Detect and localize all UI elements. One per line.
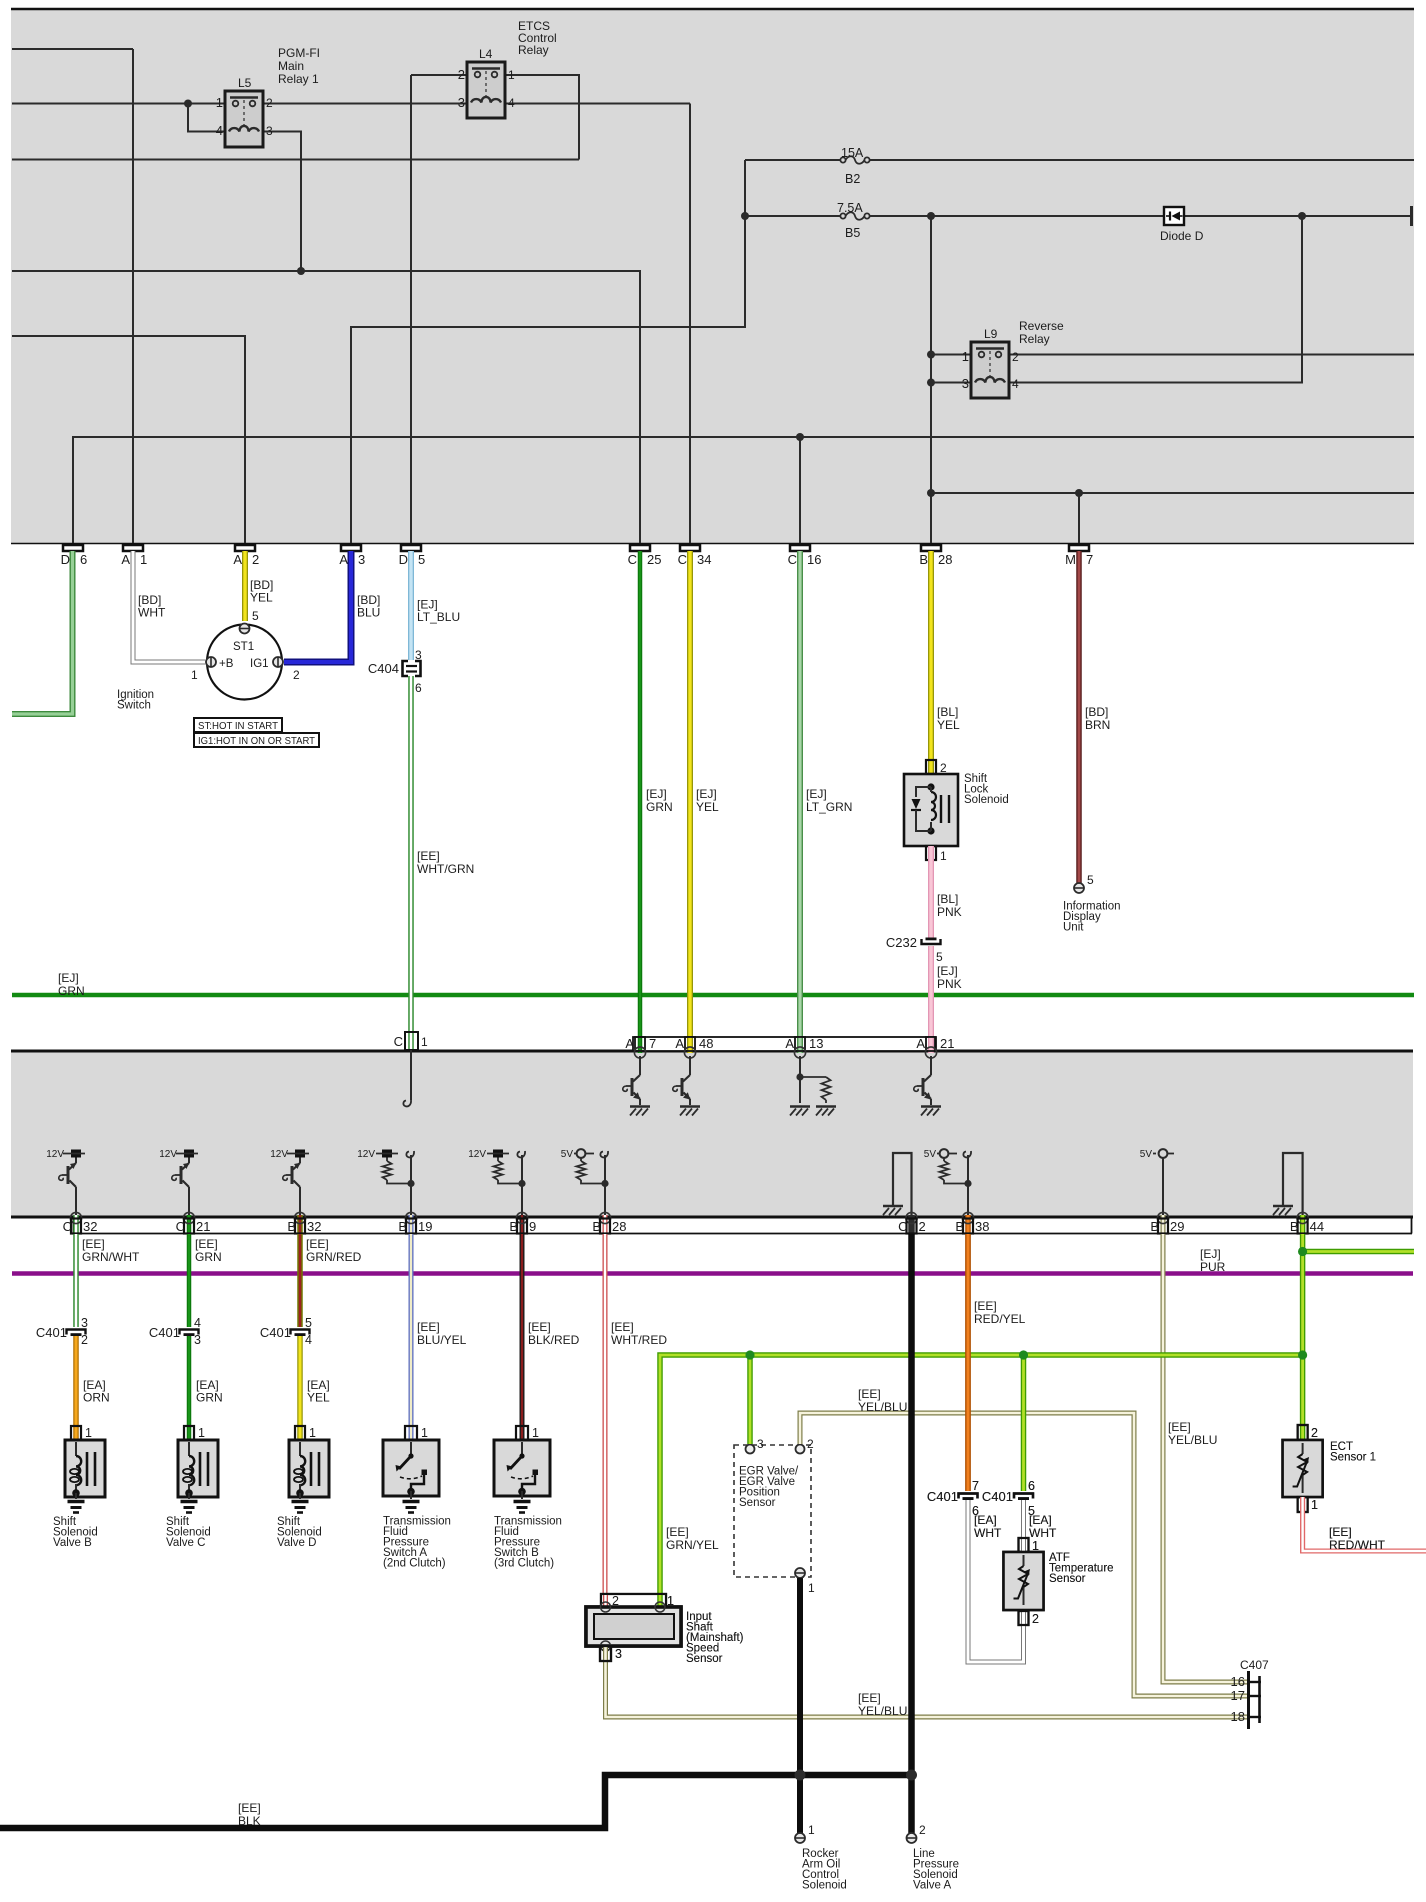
input shaft (mainshaft) speed sensor <box>601 1594 666 1607</box>
wire B38 [EE] RED/YEL <box>965 1234 971 1491</box>
wire [EJ] GRN bus line <box>12 993 1414 998</box>
svg-text:L4: L4 <box>479 47 493 61</box>
svg-text:1: 1 <box>532 1426 539 1440</box>
svg-text:3: 3 <box>458 95 465 110</box>
svg-text:32: 32 <box>307 1219 321 1234</box>
svg-text:7.5A: 7.5A <box>837 201 863 215</box>
connector B28 <box>921 545 941 551</box>
fuse B5 7.5A <box>840 212 869 220</box>
svg-text:21: 21 <box>196 1219 210 1234</box>
svg-text:2: 2 <box>1032 1612 1039 1626</box>
svg-text:12V: 12V <box>357 1149 375 1160</box>
svg-text:9: 9 <box>529 1219 536 1234</box>
svg-text:5V: 5V <box>561 1149 574 1160</box>
wire: L4 pin2 feed from D5 column <box>411 74 471 76</box>
wire: L5 pin3 to H4 <box>259 132 301 272</box>
pulldown at A13 <box>799 1056 801 1103</box>
shift lock solenoid <box>926 760 936 774</box>
svg-text:Valve B: Valve B <box>53 1537 92 1549</box>
svg-text:2: 2 <box>458 67 465 82</box>
connector C2 row2 <box>908 1215 915 1234</box>
svg-text:7: 7 <box>1086 552 1093 567</box>
connector C34 <box>680 545 700 551</box>
node: junction B5 line / B28 column <box>927 212 935 220</box>
wire [EE] YEL/BLU from EGR pin2 to C407 pin17 <box>800 1413 1248 1696</box>
svg-text:Sensor 1: Sensor 1 <box>1330 1452 1376 1464</box>
svg-text:12V: 12V <box>46 1149 64 1160</box>
svg-text:PUR: PUR <box>1200 1260 1226 1274</box>
svg-text:[EJ]: [EJ] <box>806 787 827 801</box>
svg-text:GRN: GRN <box>196 1391 223 1405</box>
wire [EE] RED/WHT from ECT pin1 <box>1303 1497 1426 1551</box>
svg-text:[EJ]: [EJ] <box>58 971 79 985</box>
wire: L5 coil branch <box>188 104 229 132</box>
terminal +B <box>206 657 216 667</box>
terminal ST1 <box>240 624 250 634</box>
svg-text:1: 1 <box>940 849 947 863</box>
svg-text:C: C <box>63 1219 72 1234</box>
wire [EA] WHT to ATF pin1 <box>1021 1500 1026 1553</box>
wire B28 [BL] YEL to shift lock solenoid <box>928 551 934 774</box>
svg-text:YEL/BLU: YEL/BLU <box>858 1704 907 1718</box>
svg-text:15A: 15A <box>841 146 864 160</box>
wire [EE] WHT/GRN from C404 to C1 <box>408 676 414 1032</box>
wire: diode branch down to L9 pin4 <box>1009 216 1302 383</box>
svg-text:C401: C401 <box>927 1489 958 1504</box>
node: junction BLK branch <box>906 1770 917 1781</box>
svg-text:3: 3 <box>358 552 365 567</box>
connector B19 row2 <box>409 1215 414 1234</box>
svg-text:A: A <box>339 552 348 567</box>
svg-text:13: 13 <box>809 1036 823 1051</box>
svg-text:[EA]: [EA] <box>974 1513 997 1527</box>
svg-text:1: 1 <box>309 1426 316 1440</box>
svg-text:[EE]: [EE] <box>528 1320 551 1334</box>
connector C1 <box>405 1032 418 1050</box>
wire [EE] RED/WHT from ECT pin1 <box>1303 1497 1426 1551</box>
wire: fuse B2 line <box>745 159 843 161</box>
svg-text:[EE]: [EE] <box>666 1525 689 1539</box>
svg-text:3: 3 <box>81 1316 88 1330</box>
wire [EJ] PUR bus line <box>12 1271 1413 1276</box>
svg-text:C: C <box>788 552 797 567</box>
shift solenoid valve C <box>178 1440 218 1497</box>
node: junction BLK / EGR pin1 <box>795 1770 806 1781</box>
ignition switch <box>207 625 282 700</box>
connector C401 (pin6/5) <box>1014 1494 1033 1499</box>
upper power-distribution gray band <box>11 8 1414 544</box>
node: junction B28 column / L9 pin3 <box>927 379 935 387</box>
svg-text:25: 25 <box>647 552 661 567</box>
svg-text:4: 4 <box>508 96 515 110</box>
connector M7 <box>1069 545 1089 551</box>
svg-text:YEL: YEL <box>937 718 960 732</box>
svg-text:1: 1 <box>198 1426 205 1440</box>
svg-text:BRN: BRN <box>1085 718 1110 732</box>
connector A21 <box>928 1037 934 1053</box>
svg-text:(2nd Clutch): (2nd Clutch) <box>383 1558 446 1570</box>
svg-text:2: 2 <box>1311 1426 1318 1440</box>
svg-text:19: 19 <box>418 1219 432 1234</box>
wire [EJ] PNK to A21 <box>928 946 934 1046</box>
terminal: line pressure solenoid valve A pin 2 <box>907 1833 917 1843</box>
svg-text:A: A <box>121 552 130 567</box>
connector C401 (pin7/6) <box>959 1494 978 1499</box>
svg-text:D: D <box>61 552 70 567</box>
svg-text:C401: C401 <box>36 1325 67 1340</box>
svg-text:C401: C401 <box>149 1325 180 1340</box>
svg-text:21: 21 <box>940 1036 954 1051</box>
svg-text:L9: L9 <box>984 327 998 341</box>
svg-text:RED/YEL: RED/YEL <box>974 1312 1026 1326</box>
svg-text:ST1: ST1 <box>233 641 254 653</box>
svg-text:C: C <box>394 1034 403 1049</box>
wire: B28 column vertical <box>930 216 932 543</box>
svg-text:1: 1 <box>1311 1498 1318 1512</box>
wire: A1 vertical <box>132 49 134 543</box>
svg-text:28: 28 <box>938 552 952 567</box>
connector A1 <box>123 545 143 551</box>
wire M7 [BD] BRN to information display unit <box>1076 551 1082 883</box>
svg-text:[EE]: [EE] <box>1168 1420 1191 1434</box>
wire: C34 column vertical from L4 pin4 <box>689 104 691 544</box>
svg-text:C407: C407 <box>1240 1658 1269 1672</box>
wire: L4 pin1 riser <box>505 75 579 160</box>
svg-text:1: 1 <box>421 1035 428 1049</box>
node: junction H437 / C16 column <box>796 433 804 441</box>
svg-text:4: 4 <box>194 1316 201 1330</box>
svg-text:5: 5 <box>305 1316 312 1330</box>
connector B29 row2 <box>1161 1215 1166 1234</box>
connector A48 <box>687 1037 693 1053</box>
svg-text:2: 2 <box>81 1333 88 1347</box>
svg-text:48: 48 <box>699 1036 713 1051</box>
svg-text:44: 44 <box>1310 1219 1324 1234</box>
relay L4 ETCS Control Relay <box>467 62 505 118</box>
node: junction L5 pin3 / H4 <box>297 267 305 275</box>
svg-text:16: 16 <box>1231 1674 1245 1689</box>
svg-text:RED/WHT: RED/WHT <box>1329 1538 1386 1552</box>
wire [EE] WHT/RED to input shaft speed sensor <box>603 1234 608 1594</box>
svg-text:Valve C: Valve C <box>166 1537 205 1549</box>
svg-text:A: A <box>233 552 242 567</box>
svg-text:GRN/WHT: GRN/WHT <box>82 1250 140 1264</box>
ATF temperature sensor <box>1019 1538 1029 1552</box>
svg-text:1: 1 <box>962 349 969 364</box>
wire [BL] PNK below shift lock solenoid <box>928 846 934 940</box>
svg-text:Relay: Relay <box>1019 332 1050 346</box>
wire [EA] WHT loop to ATF pin2 <box>968 1500 1024 1662</box>
connector C25 <box>630 545 650 551</box>
svg-text:BLK/RED: BLK/RED <box>528 1333 580 1347</box>
svg-text:7: 7 <box>972 1479 979 1493</box>
svg-text:B5: B5 <box>845 226 860 240</box>
svg-text:WHT/GRN: WHT/GRN <box>417 862 474 876</box>
svg-text:[BL]: [BL] <box>937 705 958 719</box>
svg-text:PNK: PNK <box>937 905 962 919</box>
svg-text:C232: C232 <box>886 935 917 950</box>
svg-text:C: C <box>678 552 687 567</box>
wire C16 [EJ] LT_GRN <box>797 551 803 1046</box>
svg-text:Diode D: Diode D <box>1160 229 1204 243</box>
svg-text:1: 1 <box>808 1581 815 1595</box>
svg-text:12V: 12V <box>468 1149 486 1160</box>
svg-text:B2: B2 <box>845 172 860 186</box>
svg-text:1: 1 <box>85 1426 92 1440</box>
svg-text:IG1: IG1 <box>250 658 269 670</box>
wire to C401 column 76 <box>73 1234 79 1327</box>
connector row 2 frame line <box>73 1233 1412 1235</box>
svg-text:2: 2 <box>919 1219 926 1234</box>
svg-text:A: A <box>916 1036 925 1051</box>
svg-text:[EE]: [EE] <box>858 1387 881 1401</box>
connector C21 row2 <box>187 1215 192 1234</box>
svg-text:2: 2 <box>919 1823 926 1837</box>
svg-text:1: 1 <box>421 1426 428 1440</box>
svg-text:GRN/YEL: GRN/YEL <box>666 1538 719 1552</box>
svg-text:1: 1 <box>191 668 198 682</box>
ground loop at C2 <box>893 1153 912 1216</box>
svg-text:Valve A: Valve A <box>913 1880 951 1892</box>
svg-text:YEL: YEL <box>696 800 719 814</box>
node: junction H2 / L5 coil branch <box>184 100 192 108</box>
svg-text:[EE]: [EE] <box>238 1801 261 1815</box>
connector A7 <box>638 1037 643 1053</box>
svg-text:C401: C401 <box>982 1489 1013 1504</box>
relay L5 PGM-FI Main Relay 1 <box>225 91 263 147</box>
connector B9 row2 <box>520 1215 525 1234</box>
solenoid pin 1 <box>297 1426 303 1441</box>
svg-text:B: B <box>592 1219 601 1234</box>
svg-text:[EE]: [EE] <box>611 1320 634 1334</box>
note box ST:HOT IN START <box>194 718 282 732</box>
diode D <box>1164 207 1184 225</box>
connector C232 <box>922 939 941 944</box>
svg-text:Sensor: Sensor <box>686 1653 723 1665</box>
svg-text:WHT: WHT <box>138 606 166 620</box>
ATF temperature sensor <box>1019 1538 1029 1552</box>
connector C16 <box>790 545 810 551</box>
svg-text:Solenoid: Solenoid <box>802 1880 847 1892</box>
node: GRN/YEL junction <box>745 1350 754 1359</box>
connector B38 row2 <box>965 1215 971 1234</box>
connector A2 <box>235 545 255 551</box>
node: junction B28 column / L9 pin1 <box>927 351 935 359</box>
svg-text:6: 6 <box>80 552 87 567</box>
svg-text:2: 2 <box>807 1437 814 1451</box>
ECT sensor 1 <box>1298 1425 1308 1440</box>
svg-text:M: M <box>1065 552 1076 567</box>
solenoid pin 1 <box>73 1426 79 1441</box>
wire [EE] YEL/BLU from B29 to C407 pin16 <box>1163 1234 1248 1682</box>
solenoid pin 1 <box>187 1426 192 1441</box>
connector C401 (pin7/6) <box>959 1494 978 1499</box>
connector C407 <box>1247 1671 1250 1729</box>
svg-text:34: 34 <box>697 552 711 567</box>
wire GRN/YEL branch to right edge <box>1303 1249 1414 1255</box>
node: GRN/YEL junction <box>1019 1350 1028 1359</box>
svg-text:Switch: Switch <box>117 700 151 712</box>
fuse B2 15A <box>840 156 869 164</box>
wire: fuse B5 line <box>745 215 843 217</box>
connector D5 <box>401 545 421 551</box>
svg-text:C: C <box>176 1219 185 1234</box>
svg-text:Sensor: Sensor <box>1049 1573 1086 1585</box>
wire: A3 link riser <box>351 160 745 543</box>
wire [EE] GRN/YEL bus <box>660 1355 1303 1594</box>
svg-text:C: C <box>898 1219 907 1234</box>
svg-text:[EE]: [EE] <box>306 1237 329 1251</box>
svg-text:[EE]: [EE] <box>417 1320 440 1334</box>
svg-text:A: A <box>785 1036 794 1051</box>
svg-text:[BL]: [BL] <box>937 892 958 906</box>
lower ECU gray band <box>11 1050 1413 1217</box>
wire A3 [BD] BLU to IG1 <box>284 551 351 662</box>
wire: C16 column vertical <box>799 437 801 543</box>
svg-text:38: 38 <box>975 1219 989 1234</box>
wire: M7 column vertical <box>1078 493 1080 543</box>
wire to C401 column 189 <box>187 1234 192 1327</box>
wire: H4 feed to C25 <box>12 271 640 543</box>
svg-text:[EJ]: [EJ] <box>937 964 958 978</box>
svg-text:ORN: ORN <box>83 1391 110 1405</box>
connector C32 row2 <box>73 1215 79 1234</box>
svg-text:B: B <box>287 1219 296 1234</box>
ECT sensor 1 <box>1298 1425 1308 1440</box>
wire GRN/YEL branch to C401 <box>1021 1355 1027 1491</box>
svg-text:YEL/BLU: YEL/BLU <box>1168 1433 1217 1447</box>
svg-text:Main: Main <box>278 59 304 73</box>
node: GRN/YEL junction <box>1298 1350 1307 1359</box>
svg-text:28: 28 <box>612 1219 626 1234</box>
node: junction H493 / M7 column <box>1075 489 1083 497</box>
svg-text:C: C <box>628 552 637 567</box>
svg-text:3: 3 <box>962 376 969 391</box>
wire B38 [EE] RED/YEL <box>965 1234 971 1491</box>
wire [EA] WHT to ATF pin1 <box>1021 1500 1026 1553</box>
connector D6 <box>63 545 83 551</box>
svg-text:WHT: WHT <box>1029 1526 1057 1540</box>
svg-text:YEL/BLU: YEL/BLU <box>858 1400 907 1414</box>
svg-text:[EE]: [EE] <box>974 1299 997 1313</box>
input shaft (mainshaft) speed sensor <box>601 1594 666 1607</box>
svg-text:Sensor: Sensor <box>739 1497 776 1509</box>
wire to C401 column 300 <box>297 1234 303 1327</box>
wire B44 GRN/YEL drop <box>1300 1234 1306 1441</box>
wire: H2 feed through L5 contacts to L4 coil <box>12 103 235 105</box>
svg-text:16: 16 <box>807 552 821 567</box>
svg-text:5: 5 <box>1087 873 1094 887</box>
svg-text:Reverse: Reverse <box>1019 319 1064 333</box>
svg-text:B: B <box>919 552 928 567</box>
wire A2 [BD] YEL to ST1 <box>242 551 248 621</box>
connector C401 column 300 <box>291 1330 310 1335</box>
wire C34 [EJ] YEL <box>687 551 693 1046</box>
svg-text:12V: 12V <box>159 1149 177 1160</box>
svg-text:[EA]: [EA] <box>1029 1513 1052 1527</box>
svg-text:2: 2 <box>293 668 300 682</box>
wire GRN/YEL branch to EGR pin3 <box>747 1355 753 1444</box>
shift solenoid valve B <box>65 1440 105 1497</box>
svg-text:18: 18 <box>1231 1709 1245 1724</box>
wire D5 [EJ] LT_BLU to C404 <box>408 551 414 660</box>
wire: H1 feed to A1 <box>12 48 133 50</box>
svg-text:GRN/RED: GRN/RED <box>306 1250 362 1264</box>
svg-text:GRN: GRN <box>58 984 85 998</box>
EGR valve / EGR valve position sensor <box>734 1445 811 1577</box>
svg-text:1: 1 <box>140 552 147 567</box>
svg-text:17: 17 <box>1231 1688 1245 1703</box>
node: junction B5 line / A3 riser <box>741 212 749 220</box>
wire [EA] YEL <box>297 1336 303 1426</box>
wire to pressure switch column 411 <box>409 1234 414 1426</box>
svg-text:3: 3 <box>615 1647 622 1661</box>
svg-text:[EJ]: [EJ] <box>646 787 667 801</box>
wire: L9 pin2 line to right edge <box>997 354 1414 356</box>
svg-text:29: 29 <box>1170 1219 1184 1234</box>
svg-text:1: 1 <box>808 1823 815 1837</box>
svg-text:12V: 12V <box>270 1149 288 1160</box>
svg-text:4: 4 <box>1012 377 1019 391</box>
svg-text:PNK: PNK <box>937 977 962 991</box>
transistor at A48 <box>689 1056 691 1075</box>
svg-text:[EE]: [EE] <box>417 849 440 863</box>
wire: D5 vertical <box>410 75 412 543</box>
transmission fluid pressure switch <box>494 1440 550 1496</box>
svg-text:Relay: Relay <box>518 43 549 57</box>
svg-text:7: 7 <box>649 1036 656 1051</box>
svg-text:L5: L5 <box>238 76 252 90</box>
connector C404 <box>403 661 421 676</box>
svg-text:4: 4 <box>216 123 223 138</box>
node: GRN/YEL junction <box>1298 1247 1307 1256</box>
wire: L9 pin1 feed <box>931 354 979 356</box>
svg-text:4: 4 <box>305 1333 312 1347</box>
svg-text:C404: C404 <box>368 661 399 676</box>
svg-text:3: 3 <box>415 648 422 662</box>
svg-text:(3rd Clutch): (3rd Clutch) <box>494 1558 554 1570</box>
wire: H5 feed to A2 <box>12 336 245 543</box>
svg-text:IG1:HOT IN ON OR START: IG1:HOT IN ON OR START <box>198 735 316 747</box>
svg-text:5V: 5V <box>924 1149 937 1160</box>
shift solenoid valve D <box>289 1440 329 1497</box>
transmission fluid pressure switch <box>383 1440 439 1496</box>
svg-text:[EE]: [EE] <box>858 1691 881 1705</box>
terminal: B5 line end tick <box>1410 206 1413 226</box>
svg-text:5: 5 <box>936 950 943 964</box>
wire EGR pin1 black drop <box>797 1578 803 1833</box>
svg-text:GRN: GRN <box>646 800 673 814</box>
svg-text:BLK: BLK <box>238 1814 261 1828</box>
ground loop at B44 <box>1283 1153 1303 1216</box>
svg-text:B: B <box>1290 1219 1299 1234</box>
svg-text:GRN: GRN <box>195 1250 222 1264</box>
svg-text:6: 6 <box>1028 1479 1035 1493</box>
connector C401 column 189 <box>180 1330 199 1335</box>
transistor at A21 <box>930 1056 932 1075</box>
node: junction B28 column / H493 <box>927 489 935 497</box>
svg-text:+B: +B <box>219 658 234 670</box>
svg-text:[EE]: [EE] <box>1329 1525 1352 1539</box>
wire [EE] BLK trunk <box>908 1234 915 1833</box>
wire [EA] GRN <box>187 1336 192 1426</box>
svg-text:[EE]: [EE] <box>195 1237 218 1251</box>
node: junction B5 line / diode branch to L9 <box>1298 212 1306 220</box>
wire: H493 line <box>931 492 1414 494</box>
connector C401 column 76 <box>67 1330 86 1335</box>
note box IG1:HOT IN ON OR START <box>194 733 319 747</box>
wire [EE] YEL/BLU from ISS pin3 to C407 pin18 <box>606 1661 1249 1717</box>
